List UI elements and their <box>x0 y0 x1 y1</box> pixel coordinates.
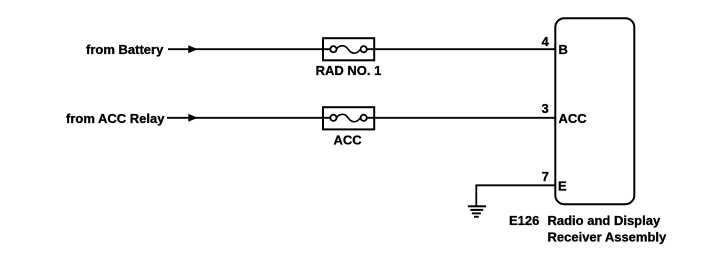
fuse RAD NO. 1 right terminal circle <box>361 46 367 52</box>
arrowhead on battery wire <box>188 45 197 53</box>
svg-text:from ACC Relay: from ACC Relay <box>66 111 165 126</box>
fuse ACC body <box>323 107 374 129</box>
wire: battery feed left segment <box>168 48 335 50</box>
wire: ACC relay feed left segment <box>167 117 335 119</box>
wire: ground lead to pin 7 <box>476 184 555 186</box>
svg-text:3: 3 <box>541 101 548 116</box>
svg-text:ACC: ACC <box>334 132 363 147</box>
svg-text:B: B <box>559 42 568 57</box>
svg-text:from Battery: from Battery <box>86 42 164 57</box>
svg-text:Receiver Assembly: Receiver Assembly <box>548 230 668 245</box>
svg-text:E126: E126 <box>509 213 539 228</box>
svg-text:7: 7 <box>542 169 549 184</box>
svg-text:E: E <box>558 179 567 194</box>
fuse RAD NO. 1 left terminal circle <box>330 46 336 52</box>
wire: battery feed right segment to pin 4 <box>363 48 556 50</box>
arrowhead on ACC wire <box>188 114 197 122</box>
fuse ACC element wave <box>337 114 361 121</box>
svg-text:4: 4 <box>541 34 549 49</box>
connector box E126 <box>555 18 634 204</box>
svg-text:ACC: ACC <box>559 111 588 126</box>
ground symbol <box>468 185 486 218</box>
fuse RAD NO. 1 body <box>323 38 374 60</box>
fuse RAD NO. 1 element wave <box>337 46 361 53</box>
fuse ACC right terminal circle <box>361 115 367 121</box>
svg-text:RAD NO. 1: RAD NO. 1 <box>316 63 382 78</box>
fuse ACC left terminal circle <box>330 115 336 121</box>
wire: ACC feed right segment to pin 3 <box>363 117 556 119</box>
svg-text:Radio and Display: Radio and Display <box>548 213 661 228</box>
